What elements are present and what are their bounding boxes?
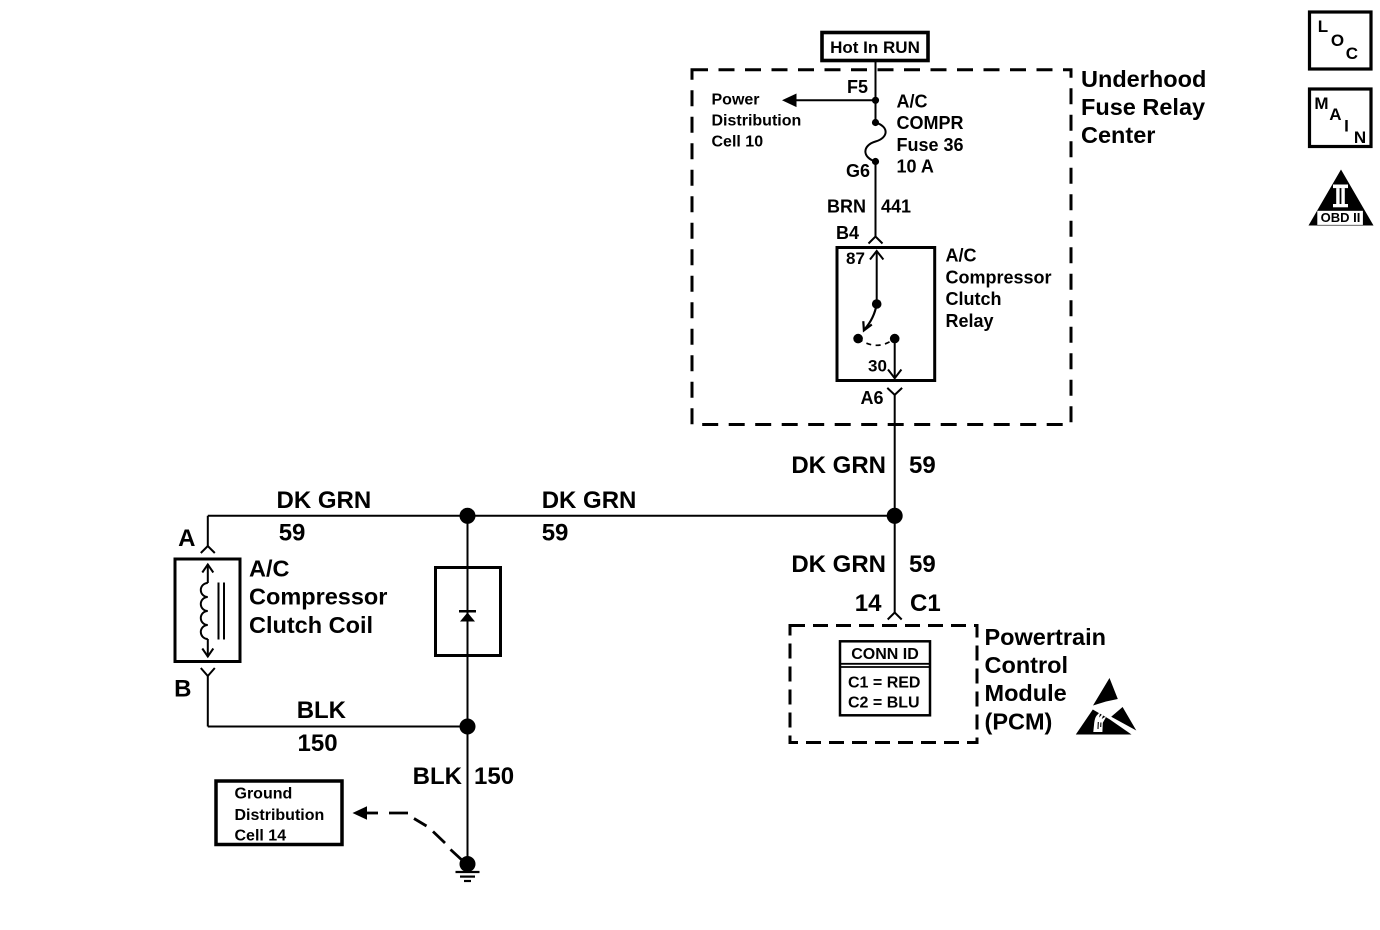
svg-text:CONN ID: CONN ID <box>851 646 919 663</box>
OBD II symbol <box>1309 170 1374 226</box>
A/C Compressor Clutch Coil box <box>175 559 240 662</box>
svg-text:I: I <box>1344 117 1349 136</box>
svg-text:L: L <box>1318 17 1328 36</box>
svg-text:10 A: 10 A <box>897 157 934 177</box>
wire BLK 150 to ground <box>467 727 469 865</box>
relay dashed arc <box>858 339 895 346</box>
svg-text:OBD II: OBD II <box>1321 210 1361 225</box>
svg-text:(PCM): (PCM) <box>985 708 1053 734</box>
svg-text:150: 150 <box>298 730 338 757</box>
wire DK GRN 59 to PCM <box>894 516 896 613</box>
svg-text:A: A <box>178 525 195 552</box>
relay box U1 <box>837 248 935 381</box>
svg-text:Ground: Ground <box>235 785 293 802</box>
svg-text:Relay: Relay <box>946 311 994 331</box>
svg-text:441: 441 <box>881 197 911 217</box>
wire DK GRN 59 from A6 to junction <box>894 395 896 516</box>
svg-text:O: O <box>1331 31 1344 50</box>
node F5 <box>872 97 879 104</box>
svg-text:Control: Control <box>985 652 1069 678</box>
svg-text:BLK: BLK <box>297 697 347 724</box>
junction node right <box>887 508 903 524</box>
svg-text:DK GRN: DK GRN <box>791 551 886 578</box>
svg-text:Center: Center <box>1081 122 1155 148</box>
svg-text:Hot In RUN: Hot In RUN <box>830 38 920 57</box>
PCM dashed box <box>790 626 977 743</box>
svg-text:N: N <box>1354 128 1366 147</box>
svg-text:B4: B4 <box>836 223 859 243</box>
svg-text:DK GRN: DK GRN <box>542 487 637 514</box>
wire diode branch upper <box>467 516 469 568</box>
svg-text:Compressor: Compressor <box>249 584 387 610</box>
wire DK GRN horizontal <box>208 515 895 517</box>
svg-text:F5: F5 <box>847 77 868 97</box>
ground G101 <box>460 856 476 872</box>
svg-text:Cell 14: Cell 14 <box>235 827 287 844</box>
svg-text:Fuse Relay: Fuse Relay <box>1081 94 1205 120</box>
svg-text:DK GRN: DK GRN <box>277 487 372 514</box>
svg-text:Distribution: Distribution <box>712 112 802 129</box>
svg-text:Fuse 36: Fuse 36 <box>897 135 964 155</box>
wire BRN 441 <box>875 162 877 237</box>
svg-text:B: B <box>174 676 191 703</box>
connector B <box>201 668 215 676</box>
junction node BLK <box>460 719 476 735</box>
svg-text:A: A <box>1329 105 1341 124</box>
MAIN symbol <box>1310 89 1372 147</box>
svg-text:Module: Module <box>985 680 1067 706</box>
Underhood Fuse Relay Center dashed box <box>692 70 1071 425</box>
svg-text:DK GRN: DK GRN <box>791 452 886 479</box>
svg-text:Compressor: Compressor <box>946 267 1052 287</box>
svg-text:59: 59 <box>542 519 569 546</box>
svg-text:A/C: A/C <box>946 246 977 266</box>
connector B4 <box>869 237 883 244</box>
wire BLK 150 horizontal <box>208 726 468 728</box>
wire diode branch lower <box>467 656 469 727</box>
svg-text:Powertrain: Powertrain <box>985 624 1106 650</box>
svg-text:30: 30 <box>868 357 887 376</box>
svg-text:14: 14 <box>855 590 882 617</box>
diode box <box>436 568 501 656</box>
Ground Distribution Cell 14 box <box>216 781 342 845</box>
svg-text:C2 = BLU: C2 = BLU <box>848 695 920 712</box>
svg-text:Cell 10: Cell 10 <box>712 133 764 150</box>
svg-text:59: 59 <box>909 551 936 578</box>
svg-text:Underhood: Underhood <box>1081 66 1206 92</box>
svg-text:A/C: A/C <box>897 91 928 111</box>
connector C1 <box>888 613 902 620</box>
svg-text:A/C: A/C <box>249 556 290 582</box>
coil L1 internals <box>201 564 224 657</box>
ESD symbol <box>1076 678 1137 735</box>
junction node diode branch <box>460 508 476 524</box>
svg-text:M: M <box>1314 94 1328 113</box>
svg-text:Clutch Coil: Clutch Coil <box>249 612 373 638</box>
svg-text:BRN: BRN <box>827 197 866 217</box>
svg-text:A6: A6 <box>860 388 883 408</box>
svg-text:Distribution: Distribution <box>235 807 325 824</box>
wire arrow to Power Distribution <box>794 99 876 101</box>
fuse F36 <box>872 119 879 126</box>
CONN ID table <box>840 641 930 715</box>
relay pin 30 <box>890 334 900 344</box>
svg-text:59: 59 <box>909 452 936 479</box>
svg-text:150: 150 <box>474 763 514 790</box>
svg-text:BLK: BLK <box>413 763 463 790</box>
svg-text:Clutch: Clutch <box>946 289 1002 309</box>
wire to terminal A <box>207 516 209 546</box>
Hot In RUN box <box>822 33 928 61</box>
svg-text:C1: C1 <box>910 590 941 617</box>
svg-text:C: C <box>1346 44 1358 63</box>
svg-text:Power: Power <box>712 91 760 108</box>
svg-text:59: 59 <box>279 519 306 546</box>
svg-text:87: 87 <box>846 249 865 268</box>
svg-text:C1 = RED: C1 = RED <box>848 675 920 692</box>
svg-text:G6: G6 <box>846 161 870 181</box>
svg-text:COMPR: COMPR <box>897 113 964 133</box>
ground reference dashed arrow <box>353 806 368 819</box>
wire B down <box>207 676 209 727</box>
diode D1 <box>467 568 469 656</box>
LOC symbol <box>1310 12 1372 69</box>
connector A <box>201 546 215 553</box>
relay switch arm <box>865 304 877 329</box>
wire from Hot In RUN to fuse <box>875 61 877 123</box>
connector A6 <box>887 388 902 395</box>
